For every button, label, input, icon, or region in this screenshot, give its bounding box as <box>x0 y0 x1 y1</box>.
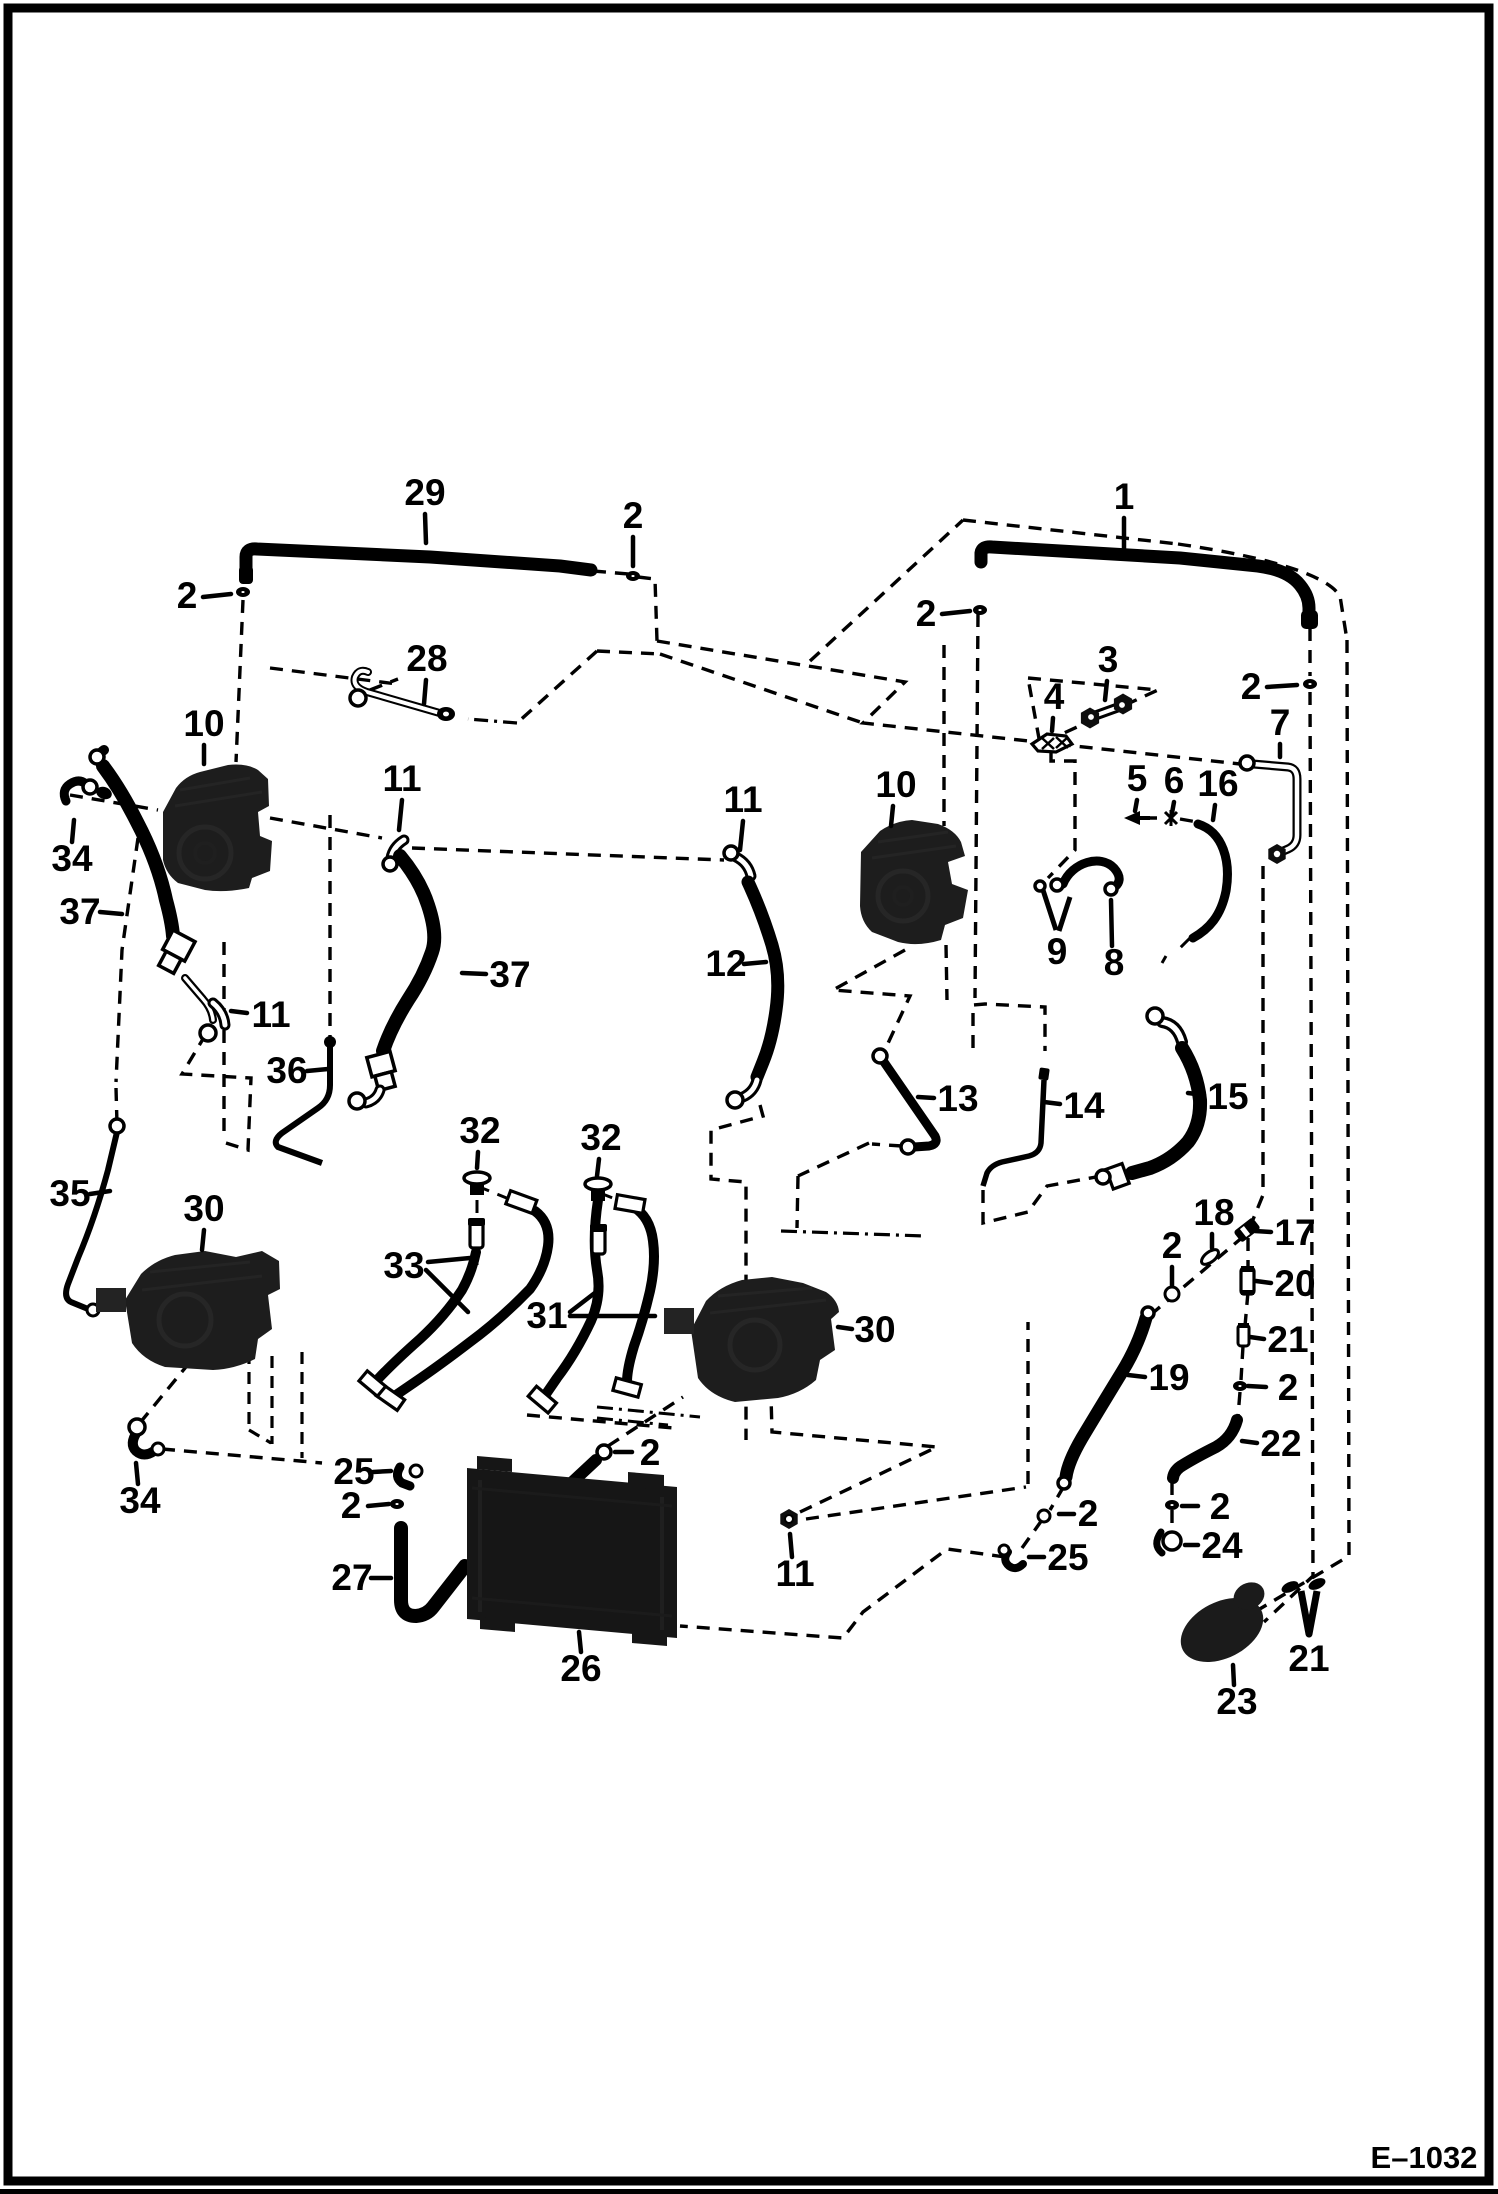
washer 2 chain lower <box>1233 1381 1247 1391</box>
wire pump30L to elbow34 <box>139 1362 190 1424</box>
V arrow 21 <box>1301 1591 1317 1634</box>
fitting right of elbow34 <box>152 1443 164 1455</box>
wire cap32 to hose31 <box>600 1193 618 1200</box>
label 2 left <box>341 1485 362 1526</box>
label 24 <box>1201 1525 1243 1566</box>
leader line <box>1029 1555 1044 1560</box>
svg-text:7: 7 <box>1270 702 1291 743</box>
leader line <box>477 1152 478 1168</box>
svg-text:9: 9 <box>1047 931 1068 972</box>
label 21 bottom <box>1288 1638 1329 1679</box>
label 32 <box>580 1117 621 1158</box>
wire vertical x1263 <box>1252 866 1263 1222</box>
ring part9 <box>1035 881 1045 891</box>
wire step outline mid <box>711 1105 763 1440</box>
label 14 <box>1063 1085 1105 1126</box>
wire frame left stub <box>270 668 397 684</box>
svg-text:E–1032: E–1032 <box>1371 2140 1478 2175</box>
svg-text:11: 11 <box>775 1553 814 1594</box>
svg-text:34: 34 <box>119 1480 161 1521</box>
wire 5-6-16 connector <box>1144 818 1197 822</box>
wire vertical x224 <box>222 942 225 1139</box>
wire vertical x975 <box>975 614 978 998</box>
hose31 left end coupler <box>528 1386 556 1413</box>
svg-text:24: 24 <box>1201 1525 1243 1566</box>
svg-text:18: 18 <box>1193 1192 1234 1233</box>
hose 12 <box>748 882 778 1077</box>
svg-text:22: 22 <box>1260 1423 1301 1464</box>
wire hose13 ring left <box>872 1144 902 1146</box>
wire chain 17-22 vertical <box>1238 1238 1248 1416</box>
wire frame lower band <box>660 654 863 723</box>
fitting 20 <box>1241 1266 1254 1295</box>
leader line <box>202 745 207 764</box>
wire frame diagonal left <box>517 651 597 723</box>
svg-text:14: 14 <box>1063 1085 1105 1126</box>
bottom page edge line <box>0 2189 1498 2194</box>
leader line <box>1111 900 1112 946</box>
leader line <box>373 1471 391 1472</box>
fitting 6 <box>1165 810 1177 826</box>
wire frame right vertical inner <box>1264 692 1313 1622</box>
label 13 <box>937 1078 978 1119</box>
pump 10 right <box>860 820 968 944</box>
svg-text:6: 6 <box>1164 760 1185 801</box>
leader line <box>371 1576 391 1581</box>
label 4 <box>1044 676 1065 717</box>
wire cap32R stem dash <box>597 1198 599 1276</box>
svg-text:2: 2 <box>1078 1493 1099 1534</box>
leader line <box>597 1159 599 1176</box>
label 20 <box>1274 1263 1315 1304</box>
svg-text:10: 10 <box>875 764 916 805</box>
leader line <box>368 1504 389 1506</box>
svg-text:2: 2 <box>1241 666 1262 707</box>
elbow fitting 11 right <box>736 857 751 876</box>
ring hose19 bottom <box>1058 1477 1070 1489</box>
hose31 right top coupler <box>615 1195 645 1214</box>
label 12 <box>705 943 746 984</box>
label 35 <box>49 1173 90 1214</box>
wire frame upper band <box>657 641 1240 764</box>
line 35 <box>66 1132 117 1309</box>
leader line <box>570 1292 596 1312</box>
washer 2 chain upper <box>1165 1289 1179 1299</box>
label 16 <box>1197 763 1238 804</box>
ring 34 bottom <box>129 1419 145 1435</box>
wire dash-dot mid <box>781 1231 925 1236</box>
filter 23 <box>1170 1577 1274 1675</box>
svg-text:2: 2 <box>177 575 198 616</box>
svg-text:1: 1 <box>1114 476 1135 517</box>
label 32 <box>459 1110 500 1151</box>
washer 2 top-left <box>236 587 250 597</box>
ring hose15 top <box>1147 1008 1163 1024</box>
label 7 <box>1270 702 1291 743</box>
fitting hose35 bottom <box>87 1304 99 1316</box>
elbow fitting 34 bottom <box>133 1432 154 1455</box>
part 9 V lines <box>1043 890 1070 931</box>
leader line <box>425 514 426 543</box>
svg-text:30: 30 <box>854 1309 895 1350</box>
fitting line14 top <box>1038 1067 1050 1080</box>
svg-text:8: 8 <box>1104 942 1125 983</box>
fitting 17 <box>1233 1217 1261 1243</box>
tube28 right fitting <box>437 707 455 721</box>
leader line <box>570 1314 655 1319</box>
svg-text:11: 11 <box>251 994 290 1035</box>
hose 1 <box>981 547 1309 619</box>
hose37 left coupler <box>155 930 195 975</box>
hose 37 left upper <box>103 766 173 936</box>
label 9 <box>1047 931 1068 972</box>
svg-text:10: 10 <box>183 703 224 744</box>
wire N zigzag to hose13 <box>833 950 910 1054</box>
ring tube7 left <box>1240 756 1254 770</box>
wire hose1 cap to fitting2 <box>1308 628 1311 676</box>
wire tube28 up right <box>370 679 398 690</box>
hose 13 <box>884 1062 936 1147</box>
leader line <box>399 800 402 830</box>
leader line <box>1188 1093 1204 1095</box>
label 34 <box>51 838 93 879</box>
wire dash fitting2 down <box>638 577 657 641</box>
wire frame top right band <box>963 520 1178 544</box>
wire 14 bottom step <box>983 1177 1096 1223</box>
wire part4 down to hose8 <box>1048 752 1075 878</box>
leader line <box>1135 800 1137 811</box>
wire hose22 to 24 <box>1170 1482 1173 1534</box>
wire hose16 tail <box>1162 938 1190 963</box>
leader line <box>1170 1267 1175 1286</box>
elbow fitting 11 mid-left <box>213 1003 225 1025</box>
label 34 bottom <box>119 1480 161 1521</box>
elbow fitting bottom of hose12 <box>743 1080 757 1097</box>
svg-text:27: 27 <box>331 1557 372 1598</box>
wire elbow34 to 25L <box>162 1449 322 1463</box>
svg-text:31: 31 <box>526 1295 567 1336</box>
hose15 coupler <box>1106 1164 1129 1190</box>
leader line <box>1128 1375 1145 1377</box>
ring hose37L top <box>90 750 104 764</box>
svg-text:21: 21 <box>1267 1319 1308 1360</box>
ring hose13 top <box>873 1049 887 1063</box>
label 2 chain <box>1162 1225 1183 1266</box>
label 29 <box>404 472 445 513</box>
leader line <box>1105 681 1107 700</box>
washer 2 above hose27 <box>390 1499 404 1509</box>
label 10 <box>875 764 916 805</box>
elbow fitting hose15 top <box>1162 1022 1182 1042</box>
label 15 <box>1207 1076 1248 1117</box>
wire 25R to cooler <box>680 1549 1005 1638</box>
leader line <box>231 1011 247 1013</box>
svg-text:2: 2 <box>916 593 937 634</box>
nipple fitting below cap32 left <box>468 1218 485 1248</box>
ring inside nut11 <box>785 1515 793 1523</box>
leader line <box>1182 1504 1198 1509</box>
svg-text:28: 28 <box>406 638 447 679</box>
label 23 <box>1216 1681 1257 1722</box>
leader line <box>1172 802 1174 813</box>
label 2 <box>916 593 937 634</box>
leader line <box>90 1191 110 1194</box>
label 30 <box>183 1188 224 1229</box>
leader line <box>1233 1665 1234 1685</box>
washer 2 above 24 <box>1165 1500 1179 1510</box>
nut bolt3 right <box>1114 694 1132 715</box>
svg-text:19: 19 <box>1148 1357 1189 1398</box>
leader line <box>202 1230 204 1250</box>
fitting 24 <box>1157 1532 1181 1553</box>
svg-text:16: 16 <box>1197 763 1238 804</box>
elbow fitting 25 right <box>999 1545 1023 1568</box>
leader line <box>1267 685 1297 687</box>
svg-text:13: 13 <box>937 1078 978 1119</box>
wire vertical x944 upper <box>942 645 945 826</box>
bracket 4 <box>1032 734 1072 752</box>
leader line <box>1213 805 1215 820</box>
wire left outline down to hose35 <box>116 838 138 1082</box>
wire step around 14 top <box>973 1004 1045 1051</box>
svg-text:2: 2 <box>640 1432 661 1473</box>
label 36 <box>266 1050 307 1091</box>
leader line <box>1185 1543 1198 1548</box>
wire vertical x798 <box>797 1176 798 1228</box>
wire elbow11 to elbow11 right <box>412 848 724 860</box>
hose33 lower end coupler <box>359 1371 386 1396</box>
label 8 <box>1104 942 1125 983</box>
leader line <box>579 1632 581 1652</box>
wire vertical x944 lower <box>946 945 947 1000</box>
bolt 3 shaft <box>1094 707 1119 716</box>
leader line <box>1278 744 1283 757</box>
leader line <box>631 537 636 566</box>
fitting 21b left <box>1280 1579 1301 1596</box>
ring hose8 left <box>1051 879 1063 891</box>
wire vertical x330 <box>328 815 331 1040</box>
nut bolt3 left <box>1081 708 1099 729</box>
leader line <box>203 594 231 597</box>
cap 32 right <box>585 1178 611 1201</box>
leader line <box>136 1463 138 1484</box>
ring hose8 right <box>1105 883 1117 895</box>
svg-text:23: 23 <box>1216 1681 1257 1722</box>
leader line <box>100 912 122 914</box>
svg-text:15: 15 <box>1207 1076 1248 1117</box>
wire dash hose29 to fitting2 <box>593 571 628 574</box>
svg-text:35: 35 <box>49 1173 90 1214</box>
wire above hose35 <box>116 1088 117 1124</box>
svg-text:12: 12 <box>705 943 746 984</box>
label 37 right <box>489 954 530 995</box>
leader line <box>1044 1102 1060 1104</box>
label 26 <box>560 1648 601 1689</box>
wire fitting2 down to pump10L <box>236 600 243 762</box>
hose 33 upper <box>396 1211 548 1395</box>
label 2 <box>1241 666 1262 707</box>
wire nut11 zigzag up <box>771 1396 937 1512</box>
fitting 21b right <box>1307 1576 1328 1593</box>
label 11 <box>382 758 421 799</box>
cooler top tube <box>567 1460 596 1487</box>
svg-text:11: 11 <box>382 758 421 799</box>
pump 30 right <box>664 1277 839 1402</box>
ring fitting 2 right of hose19 <box>1038 1510 1050 1522</box>
washer 34 top <box>94 785 113 802</box>
svg-text:29: 29 <box>404 472 445 513</box>
label 2 cooler top <box>640 1432 661 1473</box>
cap 32 left <box>464 1172 490 1195</box>
label 11 <box>723 779 762 820</box>
svg-text:25: 25 <box>1047 1537 1088 1578</box>
washer 2 hose1 right <box>1303 679 1317 689</box>
ring elbow 11 right <box>724 846 738 860</box>
label 2 above 24 <box>1210 1486 1231 1527</box>
wire cap32 to hose33 <box>477 1186 509 1199</box>
wire pump10L to elbow11 <box>270 818 382 838</box>
hose 19 <box>1066 1318 1146 1477</box>
wire hose19 to 25R <box>1022 1486 1064 1548</box>
label 2 chain lower <box>1278 1367 1299 1408</box>
label 22 <box>1260 1423 1301 1464</box>
svg-text:33: 33 <box>383 1245 424 1286</box>
hose37L top elbow <box>99 750 104 765</box>
wire frame band left link <box>597 651 660 654</box>
ring hose15 bottom <box>1096 1170 1110 1184</box>
svg-text:2: 2 <box>623 495 644 536</box>
svg-text:11: 11 <box>723 779 762 820</box>
hose 29 <box>246 549 591 574</box>
washer 2 hose1 left <box>973 605 987 615</box>
svg-text:2: 2 <box>1210 1486 1231 1527</box>
svg-text:32: 32 <box>459 1110 500 1151</box>
wire fitting34 to pump10L <box>70 795 158 810</box>
ring hose12 bottom <box>727 1092 743 1108</box>
hose 31 right <box>627 1206 654 1382</box>
leader line <box>1122 518 1127 549</box>
leader line <box>615 1450 632 1455</box>
label 2 <box>177 575 198 616</box>
ring tube28 left <box>350 690 366 706</box>
wire cap32L stem dash <box>476 1200 479 1268</box>
hose 31 left <box>546 1200 599 1394</box>
hose29 left end cap <box>239 566 253 584</box>
svg-text:37: 37 <box>489 954 530 995</box>
svg-text:37: 37 <box>59 891 100 932</box>
ring hose19 top <box>1142 1307 1154 1319</box>
leader line <box>744 962 766 964</box>
label 19 <box>1148 1357 1189 1398</box>
nut tube7 bottom <box>1268 844 1285 864</box>
svg-text:36: 36 <box>266 1050 307 1091</box>
label 30 right <box>854 1309 895 1350</box>
label 11 bottom <box>775 1553 814 1594</box>
nut 11 bottom <box>780 1509 797 1529</box>
dot line36 top <box>324 1036 336 1048</box>
nipple fitting below cap32 right <box>590 1224 607 1254</box>
wire below hoses 31 <box>527 1415 674 1428</box>
label 2 <box>623 495 644 536</box>
label 31 <box>526 1295 567 1336</box>
ring hose37R bottom <box>349 1093 365 1109</box>
svg-text:32: 32 <box>580 1117 621 1158</box>
leader line <box>1248 1386 1266 1387</box>
label 5 <box>1127 758 1148 799</box>
label 1 <box>1114 476 1135 517</box>
hose 16 <box>1193 824 1227 938</box>
leader line <box>942 611 970 614</box>
label E-1032 <box>1371 2140 1478 2175</box>
svg-text:2: 2 <box>341 1485 362 1526</box>
wire vertical x1028 <box>1026 1322 1029 1484</box>
pump 30 left <box>96 1251 280 1370</box>
ring fitting 2 above cooler <box>597 1445 611 1459</box>
label 18 <box>1193 1192 1234 1233</box>
svg-text:2: 2 <box>1278 1367 1299 1408</box>
fitting 5 <box>1124 811 1150 825</box>
svg-text:5: 5 <box>1127 758 1148 799</box>
ring hose13 bottom <box>901 1140 915 1154</box>
leader line <box>1052 718 1053 731</box>
svg-text:30: 30 <box>183 1188 224 1229</box>
svg-text:17: 17 <box>1274 1212 1315 1253</box>
label 11 mid-left <box>251 994 290 1035</box>
ring 34 top <box>83 780 97 794</box>
hose1 right end cap <box>1301 610 1318 629</box>
label 25 right <box>1047 1537 1088 1578</box>
label 27 <box>331 1557 372 1598</box>
leader line <box>1210 1234 1215 1248</box>
elbow fitting 25 left <box>397 1465 422 1486</box>
leader line <box>307 1069 328 1071</box>
elbow fitting 34 top <box>64 781 86 801</box>
wire nut11 to right <box>806 1487 1026 1519</box>
svg-text:3: 3 <box>1098 639 1119 680</box>
leader line <box>838 1327 852 1329</box>
ring of elbow 11 x402 <box>383 857 397 871</box>
wire frame big diagonal <box>810 520 963 661</box>
fitting 18 <box>1199 1247 1221 1267</box>
elbow fitting 11 x402 <box>391 840 404 858</box>
svg-text:4: 4 <box>1044 676 1065 717</box>
wire chain 17-18-2 diagonal <box>1154 1236 1244 1312</box>
label 17 <box>1274 1212 1315 1253</box>
svg-text:20: 20 <box>1274 1263 1315 1304</box>
label 6 <box>1164 760 1185 801</box>
leader line <box>918 1097 934 1098</box>
hose 37 right <box>383 856 434 1051</box>
leader line <box>462 973 486 974</box>
wire fitting2 to pump30R <box>608 1397 683 1446</box>
label 37 <box>59 891 100 932</box>
line 36 <box>276 1046 330 1163</box>
tube 7 <box>1253 764 1297 852</box>
tube 37L lower <box>185 978 213 1020</box>
wire dash-dot to tube28 <box>468 719 517 723</box>
oil cooler 26 <box>467 1456 677 1646</box>
svg-text:21: 21 <box>1288 1638 1329 1679</box>
hose31 right end coupler <box>613 1378 641 1397</box>
wire dash-dot pair <box>597 1407 700 1425</box>
label 33 <box>383 1245 424 1286</box>
ring hose35 top <box>110 1119 124 1133</box>
leader line <box>740 821 743 850</box>
leader line <box>1059 1512 1074 1517</box>
label 10 <box>183 703 224 744</box>
ring of elbow 11 mid-left <box>200 1025 216 1041</box>
hose 33 lower <box>378 1252 476 1379</box>
